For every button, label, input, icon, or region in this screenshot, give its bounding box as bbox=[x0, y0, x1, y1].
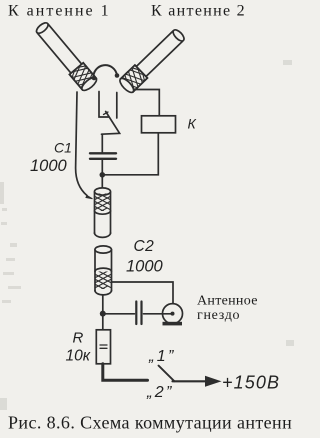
svg-text:К антенне 1: К антенне 1 bbox=[8, 3, 111, 20]
svg-text:1000: 1000 bbox=[30, 157, 68, 175]
coax cable W1 (to antenna 1, angled tube) bbox=[33, 20, 98, 93]
svg-text:1000: 1000 bbox=[126, 258, 164, 276]
node: junction dot right of hump bbox=[115, 73, 120, 78]
resistor R bbox=[96, 330, 110, 364]
wire: lower tube to node B bbox=[102, 296, 104, 312]
wire: +150V feed with arrow bbox=[173, 380, 208, 382]
antenna jack XW1 (socket) bbox=[163, 304, 183, 324]
wire: lower braid to antenna jack bbox=[112, 282, 173, 304]
svg-text:R: R bbox=[73, 330, 84, 347]
relay contact K1 (switch arm) bbox=[102, 112, 120, 135]
relay coil K bbox=[142, 116, 176, 133]
wire: node B to resistor R bbox=[102, 316, 104, 330]
svg-text:К антенне 2: К антенне 2 bbox=[151, 3, 246, 20]
node B (junction dot) bbox=[100, 311, 106, 317]
svg-text:Антенное: Антенное bbox=[197, 294, 258, 309]
wire: shield of W2 to relay coil bbox=[134, 90, 159, 116]
svg-text:гнездо: гнездо bbox=[197, 308, 240, 323]
coax feeder segment (lower vertical tube) bbox=[95, 250, 112, 292]
capacitor C3 (coupling to jack) bbox=[106, 313, 135, 315]
switch SA1 arm (position 1/2) bbox=[159, 366, 175, 382]
svg-text:К: К bbox=[188, 116, 197, 132]
wire: resistor to selector switch bbox=[103, 364, 148, 381]
wire: left contact feed bbox=[99, 92, 109, 118]
node: junction dot left of hump bbox=[92, 76, 97, 81]
svg-text:Рис. 8.6. Схема коммутации ант: Рис. 8.6. Схема коммутации антенн bbox=[8, 413, 292, 433]
capacitor C1 bbox=[90, 152, 116, 154]
node A (junction dot) bbox=[100, 172, 106, 178]
svg-text:С1: С1 bbox=[54, 140, 72, 156]
wire: relay coil to node A bbox=[105, 133, 158, 175]
wire: right contact feed bbox=[116, 93, 118, 119]
wire: C1 to node A bbox=[101, 160, 103, 172]
svg-text:10к: 10к bbox=[66, 348, 91, 365]
svg-text:С2: С2 bbox=[134, 238, 155, 255]
svg-text:„1”: „1” bbox=[148, 348, 176, 365]
svg-text:+150В: +150В bbox=[222, 373, 280, 393]
wire: switch to C1 bbox=[101, 134, 103, 152]
node: faint page bleed-through marks (left edge) bbox=[0, 60, 294, 410]
svg-text:„2”: „2” bbox=[146, 384, 174, 401]
coax feeder segment (upper vertical tube) bbox=[95, 192, 111, 234]
coax cable W2 (to antenna 2, angled tube) bbox=[118, 27, 187, 95]
wire: hump joining the two cable cores bbox=[93, 65, 117, 78]
wire: shield of W1 down to feeder braid (curved, with arrow) bbox=[76, 92, 87, 196]
wire: node A into feeder cable bbox=[101, 177, 103, 189]
